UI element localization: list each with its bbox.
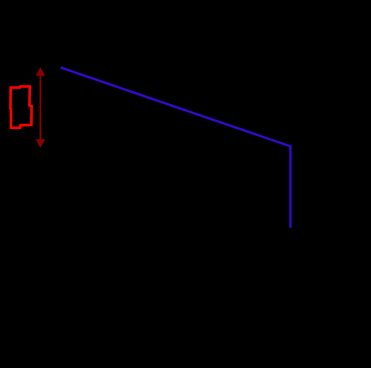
dark red arrowhead bottom [36, 139, 46, 148]
blue graph polyline [61, 68, 291, 228]
red hand-drawn rectangle [10, 86, 31, 127]
dark red double-headed arrow shaft [39, 74, 41, 141]
dark red arrowhead top [36, 67, 46, 76]
